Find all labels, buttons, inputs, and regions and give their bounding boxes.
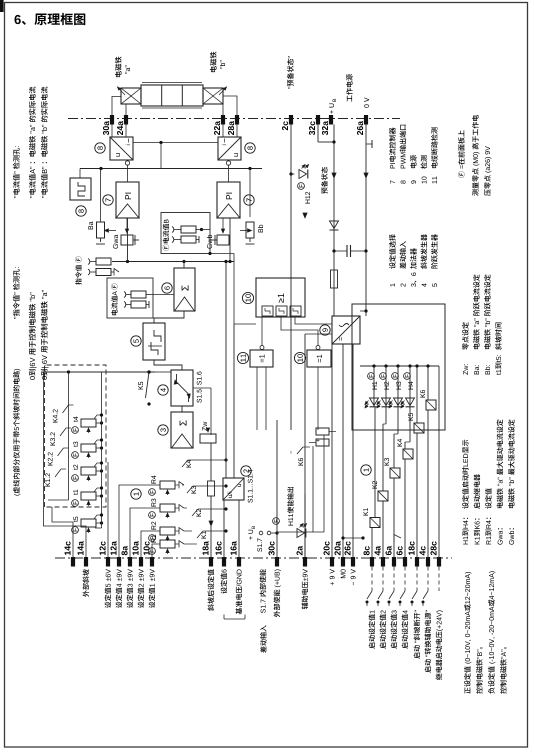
legend setpoint polarity [464,571,507,693]
dashed option box [45,365,107,507]
circled 5 [131,336,141,346]
feedback rail [80,167,262,222]
circled 10 big [242,292,253,303]
wire block2 output rails [208,252,256,478]
aux rails [155,371,171,373]
enable resistors [309,428,336,446]
PWM feed wire [79,169,81,179]
protection diode [330,221,339,230]
wires u8b to terminals [223,125,237,138]
M0 reference arrow [341,535,401,542]
solenoid a label [115,57,130,78]
working power label [347,95,352,101]
wire 18a ramp output [193,388,215,558]
output stage U8a u/i block [110,137,133,160]
output stage U8b u/i block [218,137,241,160]
logic =1 block 11 [250,350,273,367]
circled 1 relays [361,465,371,475]
S1.1-S1.4 label [248,499,253,503]
start wires [372,364,439,558]
LED H2 [377,373,391,408]
wire step to adder [154,311,184,323]
setpoint pots R1-R4 [149,476,184,555]
ready LED H12 [298,165,328,204]
circled 7 b [244,195,254,205]
potentiometer Bb [240,222,263,244]
setpoint switches K1-K4 [182,460,207,539]
rail arrow UB [332,173,336,178]
K6 enable contact [291,439,320,466]
left card-edge dash-dot line [55,557,452,559]
note current test [13,87,48,198]
relay coil K3 [384,458,400,478]
wire 24a to solenoid a [125,104,127,115]
supply outputs [305,257,353,558]
circled 10 small [294,352,305,363]
zero volt rail [364,125,372,317]
wire 30c enable [277,420,324,558]
relay coil K1 [363,508,380,527]
wire 22a to solenoid b [222,104,224,115]
PI controller b [217,182,240,218]
wire setpoint bus [108,458,228,558]
adder 6 [174,268,195,311]
valve solenoid a [118,87,142,104]
wires u8a to terminals [112,125,126,138]
PI controller a [116,182,139,218]
ramp pot bus wires [94,372,103,528]
fuse [331,270,338,288]
wire 28a to solenoid b [223,96,237,115]
test jack box Bvalue [161,213,210,254]
wire aux voltage 2a [303,213,332,558]
wire 30a to solenoid a [112,97,121,116]
circled 6 [162,283,172,293]
right card-edge dash-dot line [68,118,400,120]
relay coil K5b [408,413,424,433]
legend numbers 7-11 [389,125,438,184]
circled 8 top [95,143,105,153]
potentiometer Gwb [207,218,229,249]
jack resistors A [124,291,153,308]
circled 7 a [103,195,113,205]
ready state label [288,87,290,89]
LED H3 [389,373,403,408]
relay coil K6b [420,390,436,410]
LED H4 [401,373,415,408]
valve body [141,83,203,109]
legend H K R [462,419,515,544]
zero volt label [364,104,369,107]
legend F note [458,115,491,196]
circled 1 pots [131,489,141,499]
valve solenoid b [203,87,227,104]
adder 3 [171,412,193,448]
circled 4 [158,385,168,395]
inter-stage link wire [133,141,218,169]
test jack box Avalue [107,278,153,318]
left edge terminals [65,541,442,566]
jack resistors B [172,226,210,243]
relay coil K2 [372,481,388,501]
circled 2 [241,466,251,476]
start logic bus [360,364,439,367]
filter capacitor [332,245,367,257]
ramp switch labels S1.5 S1.6 [197,399,202,403]
LED H1 [365,373,379,408]
wire 2c ready [289,125,294,431]
note command test [13,267,49,379]
right edge terminals [103,115,368,135]
potentiometer Gwa [113,218,139,249]
note dashed box usage [14,494,21,496]
circled 11 [237,352,248,363]
PWM oscillator block [70,178,91,200]
wire rail 16c 16a to block2 [224,500,239,558]
left labels group1 [83,569,356,617]
scan mark top-left [0,0,4,12]
PI b output port [226,160,230,182]
wire ramp pots to ramp block [155,371,171,373]
differential input label [260,625,267,653]
step generator 5 [143,323,165,360]
PI a output port [125,160,129,182]
bracket 16c16a [224,615,245,620]
switch K5 ramp bypass [138,370,150,405]
start input switches [366,567,443,681]
solenoid b label [210,52,225,73]
relay contacts K1.2-K4.2 [45,405,73,486]
potentiometer Ba [88,221,116,244]
enable contact S1.7 [248,526,278,552]
monitor block 10 big [256,278,305,317]
circled 8 bottom [245,143,255,153]
zero potentiometer Zw [200,422,216,443]
circled 8 PWM [76,206,86,216]
wire jacks to nodes [153,294,174,296]
UB label [329,99,336,114]
wire summer3 to ramp [181,406,183,412]
enable LED H11 [273,487,307,538]
ramp time pots t5 t1 t2 t3 t4 [72,417,104,534]
supply rail UB [318,125,336,317]
wire ramp to step [154,360,182,370]
power supply block 9 [332,316,360,344]
legend numbers 1-5 [389,234,438,287]
option box feed wire [44,370,156,500]
wire external ramp [43,372,86,558]
wire monitor outputs [257,317,332,430]
ramp generator 4 [171,370,193,406]
legend Zw Ba Bb [462,274,502,374]
relay coil K4 [397,439,413,459]
wire adder6 to PI stages [112,218,234,268]
differential input block 2 [223,478,244,500]
title [14,13,85,25]
command value jacks [75,256,119,284]
logic box to supply [360,309,368,312]
start logic box [352,304,445,430]
circled 9 [320,325,330,335]
circled 3 [158,425,168,435]
logic =1 block 10 [307,350,331,367]
